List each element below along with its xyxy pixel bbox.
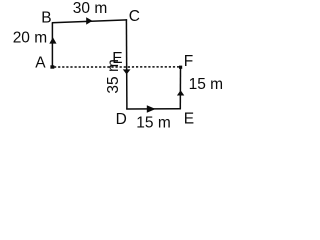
svg-text:D: D [116,111,127,128]
node F dot [179,66,182,69]
svg-text:35 m: 35 m [105,59,122,93]
svg-text:B: B [41,10,51,27]
svg-text:20 m: 20 m [13,29,47,46]
node A dot [50,65,54,68]
wire E-F (right vertical, 15 m leg) [179,68,181,109]
svg-text:F: F [184,53,193,70]
arrow right on B-C [86,17,92,24]
arrow right on D-E [147,105,156,113]
svg-text:15 m: 15 m [136,114,170,131]
dotted resultant A-F [54,66,179,68]
svg-text:C: C [129,8,140,25]
svg-text:A: A [35,54,46,71]
svg-text:15 m: 15 m [189,76,223,93]
arrow down on C-D [123,69,131,74]
wire C-D (middle vertical, 35 m leg) [125,19,128,109]
arrow up on A-B [49,37,56,43]
wire D-E (bottom horizontal, 15 m leg) [126,108,181,110]
wire A-B (left vertical, 20 m leg) [51,23,53,66]
svg-text:30 m: 30 m [73,0,107,17]
arrow up on E-F [177,90,184,95]
wire B-C (top horizontal, 30 m leg) [52,20,127,23]
svg-text:E: E [184,110,194,127]
